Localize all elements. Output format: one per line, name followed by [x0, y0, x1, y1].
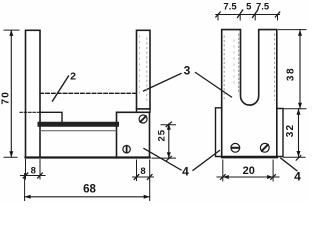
dim 7.5/5/7.5: slash ticks — [216, 10, 280, 18]
left view: dashed hidden line (item 2) — [40, 92, 137, 94]
svg-text:70: 70 — [0, 91, 11, 105]
left view: thick hatched bar (base top) — [40, 122, 117, 127]
leader for label 2 — [53, 76, 69, 101]
left view: right arm outline — [137, 30, 151, 109]
dim 20: extension lines — [223, 160, 273, 181]
svg-text:5: 5 — [246, 2, 252, 13]
svg-text:38: 38 — [286, 67, 297, 81]
dim 70: extension lines — [4, 30, 19, 157]
svg-text:8: 8 — [31, 165, 36, 176]
svg-text:3: 3 — [184, 63, 191, 77]
svg-text:7.5: 7.5 — [256, 2, 270, 13]
dim 8 left: line with slash ticks — [21, 175, 46, 177]
dim 25: arrows + ticks — [167, 124, 171, 130]
dim 8 right: line with slash ticks — [133, 176, 154, 178]
left view: base bottom edge — [26, 156, 150, 158]
leader 4 -> right view left ear — [193, 151, 220, 171]
leader 4 -> left view block — [144, 149, 181, 171]
svg-text:68: 68 — [83, 183, 96, 195]
right view: bottom thick line — [222, 156, 277, 158]
dim 8 right: extension lines — [137, 160, 150, 181]
dim 32: line — [298, 109, 300, 157]
left view: right arm to block stubs — [137, 109, 151, 112]
right view: screw right — [260, 143, 269, 152]
leader 3 -> right view slot — [196, 73, 232, 98]
svg-text:20: 20 — [243, 165, 255, 177]
dim 25: line — [168, 124, 170, 159]
dim 68: line — [25, 196, 150, 198]
dim 7.5/5/7.5: line — [216, 14, 280, 16]
left view: screw upper right — [139, 115, 147, 123]
svg-text:4: 4 — [182, 165, 189, 179]
leader 3 -> left view arm — [144, 74, 182, 92]
right view: arm shading speckle — [140, 34, 275, 100]
svg-text:25: 25 — [156, 129, 167, 142]
left view: clamp block outline — [117, 112, 150, 157]
dim 70: arrows — [9, 30, 13, 36]
dim 68: extension lines — [25, 174, 150, 201]
right view: main outline with slot — [222, 30, 277, 157]
svg-text:4: 4 — [294, 169, 301, 183]
svg-text:2: 2 — [70, 71, 76, 83]
dim 20: arrows — [223, 175, 229, 179]
right view: left ear — [216, 108, 222, 157]
right view: screw left — [231, 143, 240, 152]
dim 8 left: extension lines — [26, 160, 41, 180]
dim 20: line — [217, 176, 279, 178]
dim 32: arrows — [297, 109, 301, 115]
dim 70: line — [10, 31, 12, 158]
svg-text:32: 32 — [285, 124, 296, 138]
dim 25: extension stubs — [152, 125, 176, 158]
left view: left arm outline — [26, 30, 41, 157]
dim 38: extension lines — [279, 30, 307, 109]
left view: screw lower left — [123, 146, 130, 153]
left view: ledge step — [40, 112, 62, 122]
svg-text:8: 8 — [140, 166, 145, 177]
svg-text:7.5: 7.5 — [223, 2, 237, 13]
dim 68: arrows — [25, 195, 31, 199]
dim 38: line — [299, 30, 301, 109]
dim 38: arrows — [298, 30, 302, 36]
dim 32: bottom extension — [284, 156, 306, 158]
left view: base top thin line — [40, 130, 117, 132]
right view: right ear — [277, 109, 283, 157]
left view: hidden dashed stub through arm — [20, 111, 40, 113]
dim 7.5/5/7.5: stubs — [218, 15, 278, 21]
leader 4 right -> right view right ear — [281, 158, 297, 171]
